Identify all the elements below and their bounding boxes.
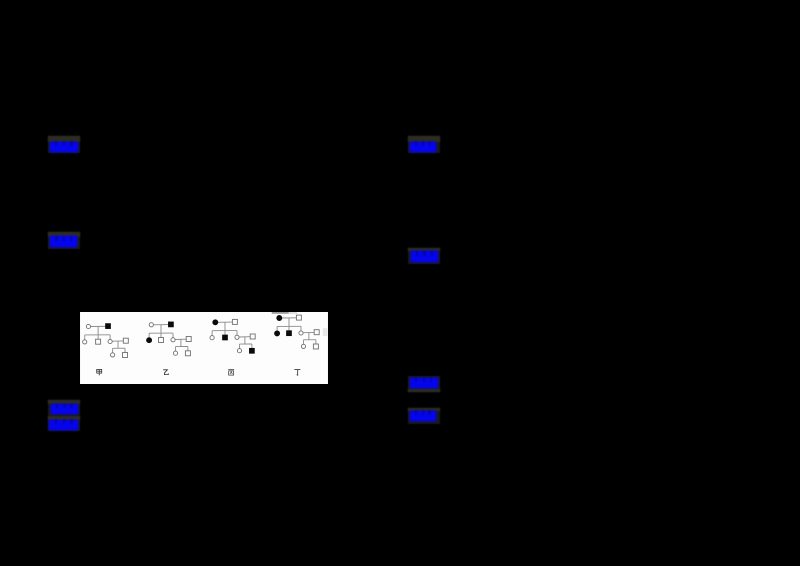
wire bing I couple line	[217, 321, 232, 323]
bing II-4 male spouse	[250, 334, 255, 339]
answer highlight R4 blue text blob	[410, 411, 436, 422]
jia I-2 male affected	[106, 323, 111, 328]
wire ding II-3 drop	[300, 326, 302, 331]
wire ding II sibship bar	[277, 325, 301, 327]
answer highlight R2 blue text blob	[411, 251, 438, 262]
wire jia II-1 drop	[84, 335, 86, 340]
wire yi I descent line	[160, 324, 162, 332]
answer highlight L2 bright band	[48, 232, 80, 237]
wire ding I couple line	[281, 316, 296, 318]
jia I-1 female	[86, 324, 90, 328]
answer highlight R1 blue text blob	[410, 142, 436, 153]
answer highlight L3 halo	[48, 400, 80, 416]
bing III-1 female	[237, 348, 241, 352]
answer highlight L4 halo	[48, 416, 80, 432]
wire jia III-2 drop	[124, 348, 126, 353]
wire bing III-1 drop	[238, 344, 240, 348]
wire ding III-2 drop	[315, 339, 317, 344]
wire ding II descent line	[308, 332, 310, 339]
answer highlight L2 halo	[48, 232, 80, 249]
yi III-2 male	[185, 350, 190, 355]
wire ding II-2 drop	[288, 326, 290, 330]
wire jia II sibship bar	[85, 333, 110, 335]
answer highlight L1 halo	[48, 136, 80, 153]
wire bing I descent line	[224, 322, 226, 330]
wire bing II-1 drop	[211, 330, 213, 335]
answer highlight R3 halo	[408, 376, 440, 392]
jia III-1 female	[111, 352, 115, 356]
answer highlight R3 blue text blob	[410, 378, 438, 389]
wire jia III-1 drop	[112, 348, 114, 352]
wire jia II-3 drop	[109, 334, 111, 339]
wire yi II descent line	[180, 339, 182, 346]
wire jia III sibship bar	[113, 347, 125, 349]
yi II-2 male	[159, 337, 164, 342]
wire jia II descent line	[117, 341, 119, 348]
label bing (Chinese numeral 3) under chart 3	[228, 369, 234, 375]
wire bing II descent line	[244, 337, 246, 344]
bing II-2 male affected	[223, 335, 228, 340]
cropped text streak at figure top edge	[272, 311, 289, 314]
yi I-2 male affected	[169, 322, 174, 327]
wire bing III sibship bar	[239, 343, 251, 345]
label jia (Chinese numeral 1) under chart 1	[97, 369, 102, 375]
answer highlight R3 bright band	[408, 389, 440, 392]
yi II-4 male spouse	[186, 336, 191, 341]
pedigree figure (white inset image with four family trees)	[80, 312, 328, 384]
wire yi III sibship bar	[176, 345, 188, 347]
wire yi II sibship bar	[149, 332, 173, 334]
ding I-1 female affected	[277, 315, 282, 320]
answer highlight R4 halo	[408, 408, 440, 424]
bing II-3 female	[235, 335, 239, 339]
answer highlight L3 bright band	[48, 400, 80, 404]
wire yi III-1 drop	[175, 346, 177, 350]
ding II-1 female affected	[275, 331, 280, 336]
wire bing III-2 drop	[251, 344, 253, 349]
ding I-2 male	[296, 315, 301, 320]
label ding (Chinese numeral 4) under chart 4	[294, 369, 300, 375]
wire yi II-3 drop	[172, 333, 174, 338]
bing I-2 male	[232, 319, 237, 324]
wire bing II-3 drop	[236, 330, 238, 335]
gray patch at figure right edge	[323, 328, 328, 336]
wire jia II couple line	[112, 340, 123, 342]
bing I-1 female affected	[213, 319, 218, 324]
ding III-1 female	[301, 344, 305, 348]
wire ding III sibship bar	[303, 338, 315, 340]
answer highlight R2 bright band	[408, 248, 440, 251]
wire yi II-1 drop	[148, 333, 150, 338]
answer highlight L4 blue text blob	[49, 420, 78, 431]
figure white background	[80, 312, 328, 384]
ding II-3 female	[299, 331, 303, 335]
wire bing II-2 drop	[224, 330, 226, 334]
ding II-4 male spouse	[314, 329, 319, 334]
wire yi III-2 drop	[187, 346, 189, 351]
bing III-2 male affected	[249, 348, 254, 353]
ding III-2 male	[313, 344, 318, 349]
answer highlight R1 bright band	[408, 136, 440, 142]
wire bing II sibship bar	[212, 329, 237, 331]
answer highlight L1 blue text blob	[50, 142, 78, 152]
answer highlight R2 halo	[408, 248, 440, 264]
answer highlight L1 bright band	[48, 136, 80, 142]
wire jia I couple line	[91, 325, 106, 327]
jia II-3 female	[108, 339, 112, 343]
wire yi II-2 drop	[160, 333, 162, 337]
wire jia I descent line	[97, 326, 99, 334]
answer highlight R1 halo	[408, 136, 440, 153]
jia II-2 male	[96, 339, 101, 344]
yi I-1 female	[149, 322, 153, 326]
wire ding II-1 drop	[276, 326, 278, 331]
jia II-4 male spouse	[123, 338, 128, 343]
wire ding I descent line	[288, 318, 290, 326]
wire yi II couple line	[175, 338, 186, 340]
wire ding II couple line	[303, 331, 314, 333]
wire jia II-2 drop	[97, 335, 99, 339]
label yi (Chinese numeral 2) under chart 2	[163, 369, 168, 374]
bing II-1 female	[210, 335, 214, 339]
answer highlight L2 blue text blob	[50, 236, 77, 246]
jia III-2 male	[123, 352, 128, 357]
wire yi I couple line	[153, 323, 168, 325]
yi III-1 female	[173, 351, 177, 355]
answer highlight R4 bright band	[408, 408, 440, 411]
wire ding III-1 drop	[302, 339, 304, 343]
ding II-2 male affected	[287, 330, 292, 335]
yi II-1 female affected	[147, 337, 152, 342]
jia II-1 female	[83, 339, 87, 343]
yi II-3 female	[171, 337, 175, 341]
wire bing II couple line	[239, 335, 250, 337]
answer highlight L3 blue text blob	[51, 404, 79, 414]
answer highlight L4 bright band	[48, 416, 80, 420]
